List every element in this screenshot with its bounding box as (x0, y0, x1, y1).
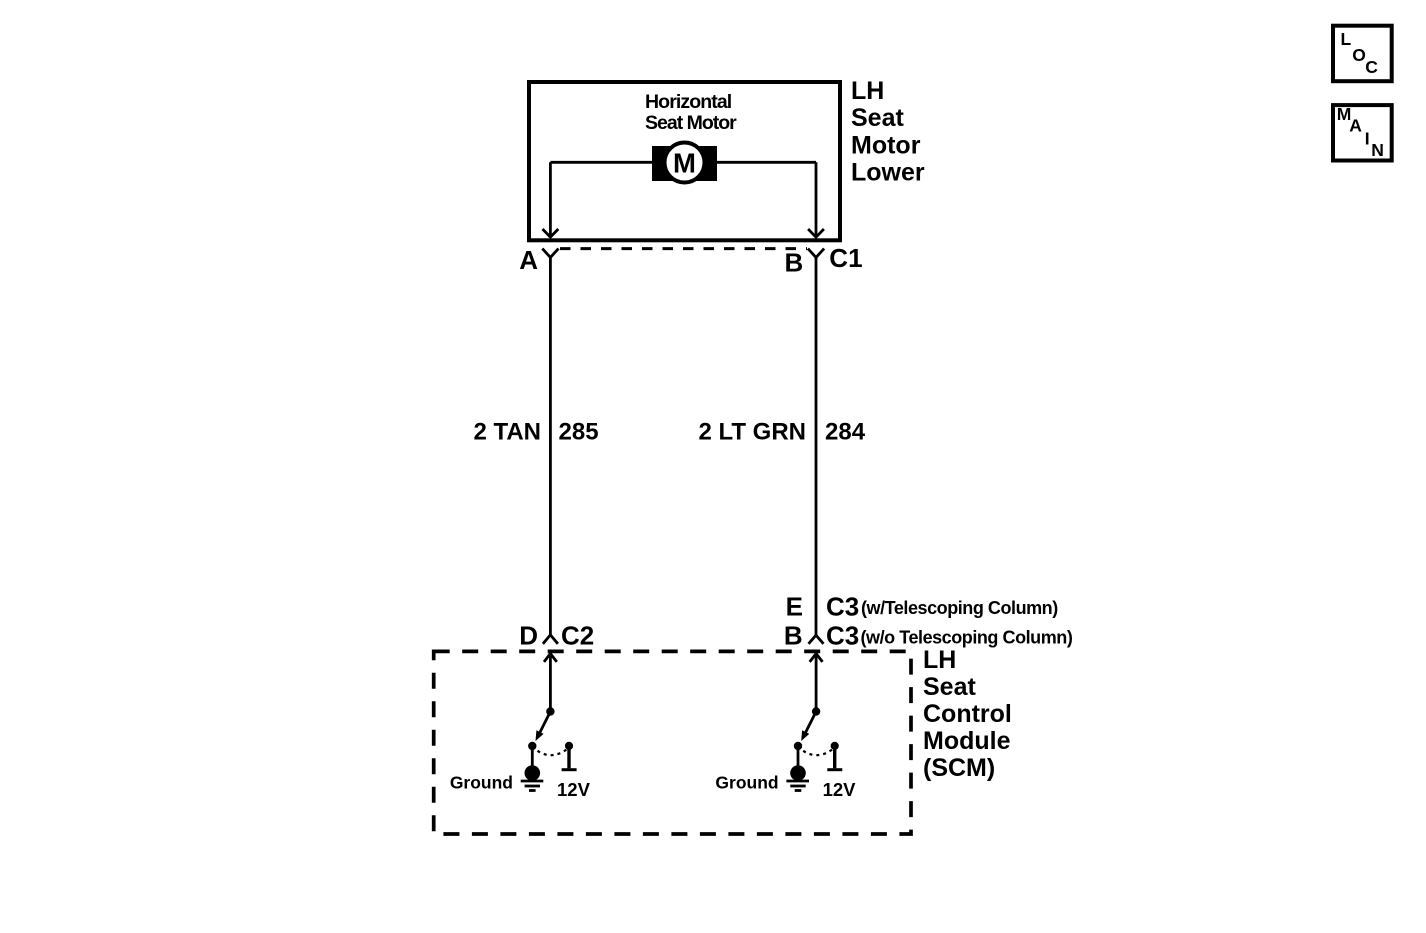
svg-text:Ground: Ground (715, 773, 778, 793)
svg-text:(w/Telescoping Column): (w/Telescoping Column) (861, 598, 1058, 618)
svg-text:(SCM): (SCM) (923, 754, 995, 782)
svg-text:I: I (1365, 128, 1370, 148)
MAIN reference box (1333, 104, 1392, 161)
dashed link to 12V (right) (803, 750, 832, 756)
svg-text:A: A (519, 245, 538, 275)
svg-text:C1: C1 (829, 243, 862, 273)
svg-text:M: M (673, 147, 696, 178)
wire to switch (left) (549, 654, 552, 712)
connector pin B (female) (808, 249, 824, 258)
label: LH Seat Control Module (SCM) (923, 646, 1012, 782)
label: Horizontal Seat Motor (645, 91, 737, 134)
wire to switch (right) (815, 654, 818, 712)
svg-text:E: E (786, 592, 803, 622)
wire 284: 2 LT GRN (815, 257, 818, 635)
svg-text:Module: Module (923, 727, 1011, 755)
svg-text:LH: LH (851, 77, 884, 105)
svg-text:D: D (519, 620, 538, 650)
connector pin D (male) (543, 635, 558, 644)
svg-text:(w/o Telescoping Column): (w/o Telescoping Column) (861, 628, 1073, 648)
switch contact dot (right) (794, 742, 802, 750)
connector pin B (male, SCM) (809, 635, 824, 644)
arrow down at pin B (808, 229, 824, 237)
arrow down at pin A (543, 229, 559, 237)
svg-text:C3: C3 (826, 592, 859, 622)
svg-text:Seat: Seat (923, 673, 976, 701)
SCM dashed box (434, 651, 911, 834)
svg-text:C2: C2 (561, 621, 594, 651)
label: LH Seat Motor Lower (851, 77, 925, 187)
svg-text:Lower: Lower (851, 159, 925, 187)
svg-text:LH: LH (923, 646, 956, 674)
svg-text:B: B (785, 248, 804, 278)
arrow up into SCM (left) (544, 654, 557, 662)
switch arm with arrowhead (right) (801, 712, 816, 742)
switch contact dot (left) (528, 742, 536, 750)
svg-text:C3: C3 (826, 621, 859, 651)
ground symbol lines (left) (521, 781, 544, 791)
svg-text:284: 284 (825, 419, 866, 446)
svg-text:O: O (1352, 45, 1366, 65)
connector pin A (female) (542, 249, 558, 258)
svg-text:Seat Motor: Seat Motor (645, 112, 737, 134)
ground symbol lines (right) (786, 781, 809, 791)
svg-text:Seat: Seat (851, 104, 904, 132)
wire: left motor lead down (549, 162, 552, 236)
svg-text:C: C (1365, 57, 1378, 77)
svg-text:Horizontal: Horizontal (645, 91, 732, 113)
ground stem (right) (797, 746, 800, 770)
svg-text:L: L (1341, 29, 1352, 49)
wire: right motor lead down (815, 162, 818, 236)
svg-text:12V: 12V (557, 779, 591, 800)
motor M (Horizontal Seat Motor) (652, 143, 717, 183)
connector C1 dashed line (560, 247, 807, 250)
component box: LH Seat Motor (529, 82, 840, 240)
svg-text:2 LT GRN: 2 LT GRN (698, 419, 806, 446)
ground stem (left) (531, 746, 534, 770)
dashed link to 12V (left) (538, 750, 567, 756)
wire 285: 2 TAN (549, 257, 552, 635)
svg-text:A: A (1349, 115, 1362, 135)
LOC reference box (1333, 26, 1392, 81)
switch junction dot (right) (812, 707, 820, 715)
svg-text:12V: 12V (823, 779, 857, 800)
svg-text:Ground: Ground (450, 773, 513, 793)
switch junction dot (left) (546, 707, 554, 715)
arrow up into SCM (right) (810, 654, 823, 662)
ground ball (left) (525, 765, 541, 781)
svg-text:Control: Control (923, 700, 1012, 728)
12V supply symbol (left) (562, 742, 577, 770)
svg-text:N: N (1371, 140, 1384, 160)
wire: motor leads (horizontal) (550, 161, 816, 164)
switch arm with arrowhead (left) (536, 712, 551, 742)
svg-text:Motor: Motor (851, 131, 921, 159)
ground ball (right) (790, 765, 806, 781)
svg-text:B: B (784, 620, 803, 650)
12V supply symbol (right) (827, 742, 842, 770)
svg-text:285: 285 (559, 419, 599, 446)
svg-text:2 TAN: 2 TAN (473, 419, 541, 446)
